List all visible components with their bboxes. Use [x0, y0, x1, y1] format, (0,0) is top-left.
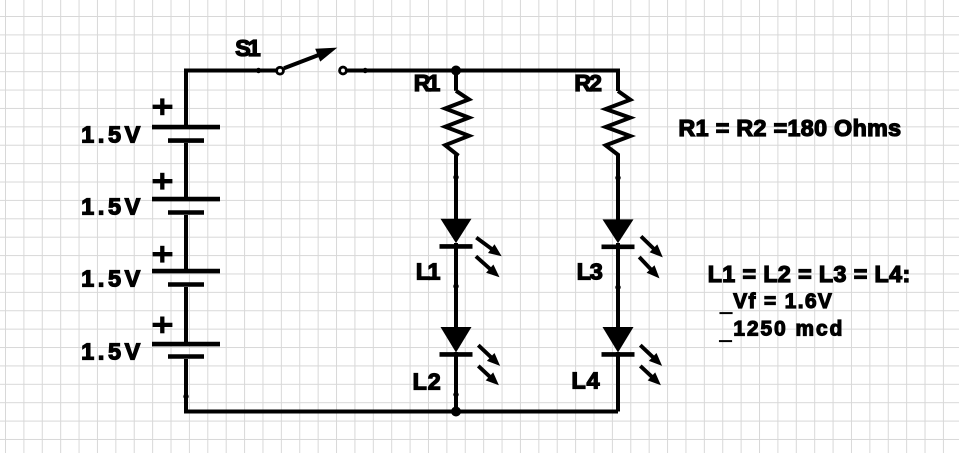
svg-text:1.5V: 1.5V — [81, 193, 141, 219]
svg-text:L1: L1 — [416, 259, 441, 285]
svg-text:S1: S1 — [235, 35, 261, 61]
svg-text:1.5V: 1.5V — [81, 121, 141, 147]
svg-text:L4: L4 — [572, 368, 600, 394]
svg-text:R1: R1 — [414, 70, 441, 96]
svg-text:L3: L3 — [577, 259, 603, 285]
svg-text:_1250 mcd: _1250 mcd — [719, 318, 843, 345]
svg-text:1.5V: 1.5V — [81, 265, 141, 291]
svg-text:L1 = L2 = L3 = L4:: L1 = L2 = L3 = L4: — [708, 261, 911, 287]
svg-text:R1 = R2 =180 Ohms: R1 = R2 =180 Ohms — [679, 115, 902, 141]
svg-text:_Vf = 1.6V: _Vf = 1.6V — [719, 290, 832, 316]
svg-text:R2: R2 — [574, 70, 602, 96]
svg-text:L2: L2 — [413, 369, 441, 395]
svg-text:1.5V: 1.5V — [81, 338, 141, 364]
